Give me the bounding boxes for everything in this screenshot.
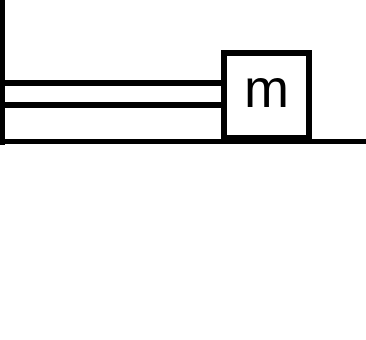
label m — [221, 50, 312, 141]
wall (vertical line at left) — [0, 0, 5, 145]
block m (mass) — [221, 50, 312, 141]
wire (upper horizontal rod from wall to block) — [0, 80, 224, 86]
ground (floor line) — [0, 139, 366, 145]
wire (lower horizontal rod from wall to block) — [0, 102, 224, 108]
